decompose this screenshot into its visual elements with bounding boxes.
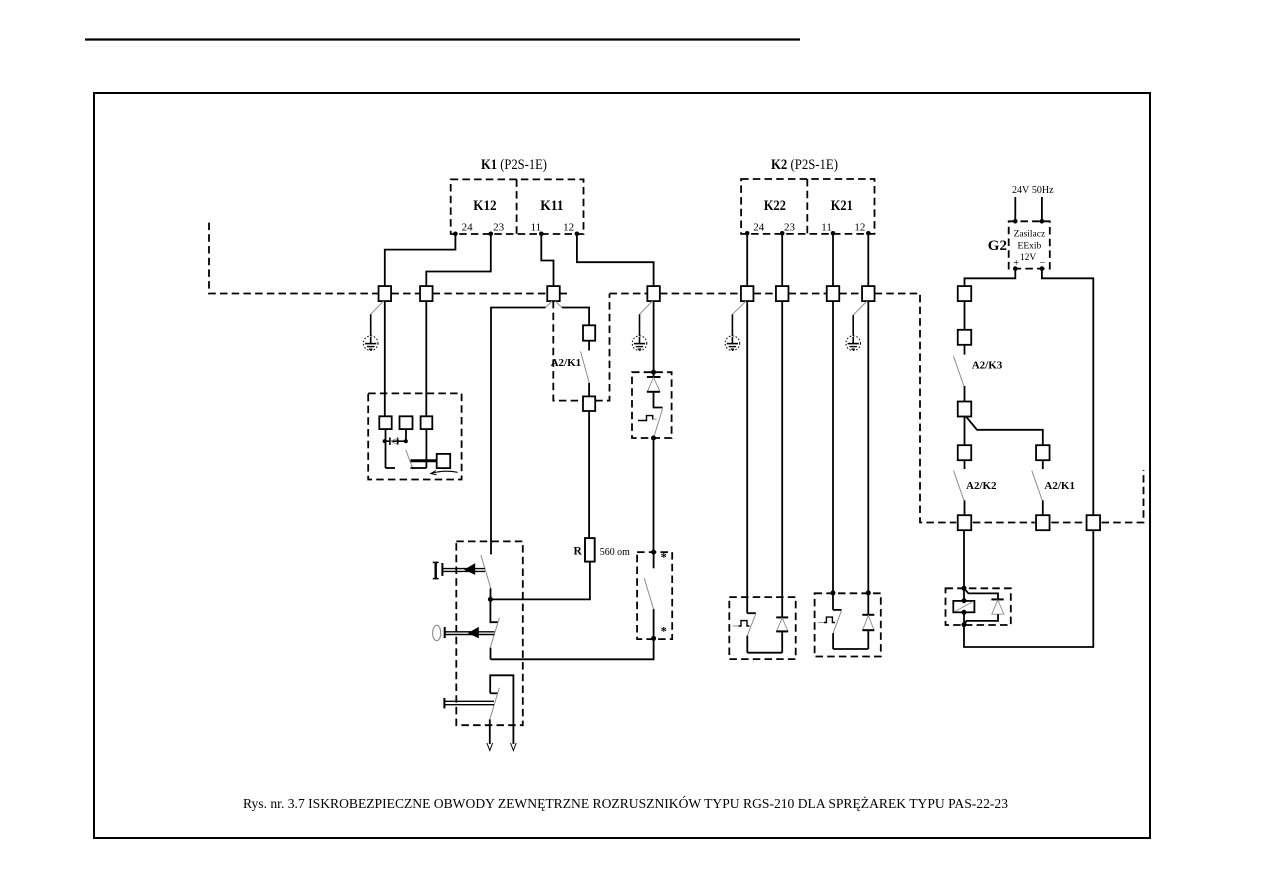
svg-text:24: 24 bbox=[462, 222, 474, 234]
wire G2 minus to RB3 bbox=[1042, 269, 1093, 516]
diode D1 bar line with junctions bbox=[385, 440, 406, 442]
svg-text:12V: 12V bbox=[1020, 253, 1037, 263]
svg-text:23: 23 bbox=[493, 222, 505, 234]
station terminal square T3 bbox=[421, 416, 433, 429]
wire mains L to G2 bbox=[1014, 197, 1016, 221]
dashed barrier bus S5-S6 bbox=[754, 293, 777, 295]
contact A2/K1 right arm bbox=[1032, 471, 1042, 501]
start plunger bbox=[441, 563, 443, 576]
svg-text:11: 11 bbox=[821, 222, 832, 234]
svg-text:24V: 24V bbox=[1012, 185, 1030, 196]
contact A2/K2 arm bbox=[954, 471, 964, 501]
contact A2/K1 dashed enclosure bbox=[553, 301, 583, 401]
dashed barrier bus corner to S4 bbox=[610, 293, 648, 295]
svg-text:24: 24 bbox=[753, 222, 765, 234]
wire contact to RB1 bbox=[964, 500, 966, 515]
svg-text:EExib: EExib bbox=[1018, 241, 1042, 251]
wire R1 to R2 bbox=[964, 301, 966, 330]
limit switch fixed stub bbox=[833, 609, 842, 611]
wire K2 pin 11 to connector S7 bbox=[832, 233, 834, 286]
wire relay return to RB3 bbox=[964, 530, 1093, 647]
K2 pin 12 terminal dot bbox=[866, 231, 871, 236]
dashed barrier bus S3 stub bbox=[560, 293, 569, 295]
limit switch notch bbox=[733, 625, 739, 627]
K21 output dashed box bbox=[815, 593, 881, 656]
svg-text:*: * bbox=[661, 551, 667, 565]
diode D3 triangle bbox=[777, 618, 788, 631]
junction dot bottom bbox=[651, 436, 656, 441]
K2 pin 23 terminal dot bbox=[780, 231, 785, 236]
wire resistor to start/stop node bbox=[490, 562, 590, 600]
wire S1 down to station terminal bbox=[384, 301, 386, 416]
wire K1 pin 11 to connector S3 bbox=[541, 234, 553, 286]
svg-text:K11: K11 bbox=[540, 198, 563, 214]
branch wire R3 to R5 bbox=[966, 417, 1043, 446]
K1 pin 23 terminal dot bbox=[489, 232, 494, 237]
connector S6 bbox=[776, 286, 789, 301]
svg-text:23: 23 bbox=[784, 222, 796, 234]
wire T3 down bbox=[425, 429, 427, 468]
aux arm wire down bbox=[489, 719, 491, 744]
wire stop arm down bbox=[490, 648, 492, 660]
junction dot top bbox=[651, 370, 656, 375]
K1 pin 11 terminal dot bbox=[539, 232, 544, 237]
stop actuator arrow bbox=[468, 627, 479, 639]
interlock dashed box bbox=[637, 552, 672, 639]
dashed barrier bus S4-S5 bbox=[660, 293, 741, 295]
svg-text:R: R bbox=[574, 546, 583, 558]
wire G2 plus to R1 bbox=[965, 269, 1016, 287]
svg-text:K22: K22 bbox=[764, 198, 786, 214]
station terminal square T1 bbox=[379, 416, 391, 429]
contact A2/K1 upper terminal square bbox=[583, 325, 595, 340]
aux contact arm bbox=[490, 688, 500, 720]
wire S2 down to station terminal bbox=[425, 301, 427, 416]
svg-text:A2/K1: A2/K1 bbox=[1044, 480, 1075, 492]
stop branch wire with fixed contact bbox=[490, 599, 497, 622]
K2 block divider bbox=[806, 179, 808, 234]
wire R5 to contact A2/K1 bbox=[1042, 460, 1044, 469]
stop plunger bbox=[444, 627, 446, 638]
junction dot K21 left bbox=[831, 590, 836, 595]
contact A2/K3 arm bbox=[954, 356, 964, 386]
stop contact arm bbox=[490, 618, 499, 648]
relay A2 dashed box bbox=[946, 588, 1011, 625]
dashed barrier bus RB1-RB2 bbox=[973, 522, 1035, 524]
contact A2/K1 lower terminal square bbox=[583, 396, 595, 411]
wire arm down bbox=[746, 636, 748, 653]
connector S3 bbox=[547, 286, 560, 301]
station terminal square T4 bbox=[437, 454, 451, 468]
limit switch arm bbox=[747, 614, 756, 636]
diode D3 leg bbox=[781, 631, 783, 652]
wire K2 pin 24 to connector S5 bbox=[746, 233, 748, 286]
dashed barrier boundary left branch bbox=[209, 223, 379, 294]
wire R3 to R4 bbox=[964, 417, 966, 446]
wire contact to RB2 bbox=[1042, 500, 1044, 515]
svg-text:11: 11 bbox=[531, 222, 542, 234]
bottom link wire bbox=[833, 648, 868, 650]
limit switch notch bbox=[818, 622, 824, 624]
dashed barrier bus S2-S3 bbox=[433, 293, 548, 295]
ground symbol under S4 bbox=[632, 336, 647, 351]
wire RB1 down to relay A2 bbox=[963, 530, 965, 601]
diode-reed dashed box bbox=[632, 372, 672, 438]
station terminal square T2 bbox=[400, 416, 413, 429]
diode D4 cathode bar bbox=[862, 614, 874, 616]
ground symbol under S5 bbox=[725, 336, 740, 351]
start button I symbol bbox=[433, 561, 439, 563]
ground symbol under S8 bbox=[846, 336, 861, 351]
wire to resistor R bbox=[588, 411, 590, 538]
connector S1 bbox=[379, 286, 392, 301]
reed switch arm bbox=[654, 409, 663, 438]
diode D4 leg bbox=[867, 630, 869, 649]
K22 output dashed box bbox=[729, 597, 795, 659]
ground symbol under S1 bbox=[363, 336, 378, 351]
diode D4 triangle bbox=[863, 615, 874, 630]
wire K1 pin 23 to connector S2 bbox=[426, 234, 491, 286]
K1 block divider bbox=[516, 179, 518, 234]
diode D5 cathode bar bbox=[991, 598, 1003, 600]
ground lead from S4 bbox=[640, 301, 653, 314]
bottom link wire bbox=[747, 652, 782, 654]
svg-text:K21: K21 bbox=[831, 198, 853, 214]
station bottom left stub bbox=[386, 467, 396, 469]
station actuator bar bbox=[411, 459, 437, 462]
diode D5 bottom link bbox=[964, 614, 998, 625]
junction dot K21 right bbox=[866, 590, 871, 595]
svg-text:G2: G2 bbox=[988, 238, 1007, 254]
connector R4 bbox=[958, 445, 972, 460]
relay block K1 (P2S-1E) dashed outline bbox=[451, 179, 584, 234]
auxiliary changeover contact top link bbox=[490, 675, 513, 744]
limit switch fixed stub bbox=[747, 612, 756, 614]
connector S2 bbox=[420, 286, 433, 301]
wire T2 down to diode node bbox=[405, 429, 407, 441]
station contact arm bbox=[406, 450, 413, 470]
diode D3 base bar bbox=[776, 630, 788, 632]
K1 pin 12 terminal dot bbox=[575, 232, 580, 237]
ground lead from S8 bbox=[853, 301, 867, 315]
pushbutton dashed box bbox=[456, 541, 523, 725]
K2 pin 11 terminal dot bbox=[831, 231, 836, 236]
wire K1 pin 24 to connector S1 bbox=[385, 234, 456, 286]
connector RB3 bbox=[1087, 515, 1101, 530]
wire mains N to G2 bbox=[1041, 197, 1043, 221]
connector RB2 bbox=[1036, 515, 1050, 530]
diode D5 top link bbox=[964, 588, 998, 599]
G2 input terminal dots bbox=[1013, 219, 1018, 224]
svg-text:*: * bbox=[661, 625, 667, 639]
connector S7 bbox=[827, 286, 840, 301]
svg-text:Rys. nr. 3.7 ISKROBEZPIECZNE: Rys. nr. 3.7 ISKROBEZPIECZNE OBWODY ZEWN… bbox=[243, 795, 1008, 812]
svg-text:12: 12 bbox=[563, 222, 574, 234]
wire contact to R3 bbox=[964, 386, 966, 402]
svg-text:A2/K3: A2/K3 bbox=[972, 360, 1003, 372]
wire coil to bottom node bbox=[963, 612, 965, 624]
ground lead from S5 bbox=[732, 301, 746, 314]
connector RB1 bbox=[958, 515, 972, 530]
dashed barrier bus RB2-RB3 bbox=[1051, 522, 1085, 524]
svg-text:A2/K1: A2/K1 bbox=[551, 357, 582, 369]
wire K2 pin 23 to connector S6 bbox=[781, 233, 783, 286]
svg-text:K2 (P2S-1E): K2 (P2S-1E) bbox=[771, 157, 838, 173]
connector S5 bbox=[741, 286, 754, 301]
connector R1 bbox=[958, 286, 972, 301]
connector R3 bbox=[958, 402, 972, 417]
contact A2/K1 arm bbox=[581, 352, 590, 384]
wire start arm to node bbox=[490, 588, 492, 599]
station bottom right stub bbox=[411, 467, 427, 469]
dashed barrier bus S6-S7 bbox=[789, 293, 827, 295]
resistor R bbox=[585, 538, 595, 562]
K2 pin 24 terminal dot bbox=[745, 231, 750, 236]
dashed barrier bus right end with up stub bbox=[1102, 470, 1144, 523]
field station dashed box bbox=[368, 393, 461, 479]
junction dot interlock top bbox=[651, 550, 656, 555]
wire diode to switch bbox=[654, 392, 663, 408]
diode D2 base bar bbox=[647, 391, 660, 393]
page border frame bbox=[94, 93, 1150, 838]
wire S7 down to K21 box bbox=[832, 301, 834, 610]
wire R2 to contact A2/K3 bbox=[964, 345, 966, 355]
wire K1 pin 12 to connector S4 bbox=[577, 234, 654, 286]
ground lead from S1 bbox=[371, 301, 384, 336]
dashed barrier bus to right drop bbox=[875, 294, 957, 523]
G2 output terminal dots bbox=[1013, 266, 1018, 271]
diode D5 triangle bbox=[992, 600, 1004, 614]
svg-text:12: 12 bbox=[854, 222, 865, 234]
connector R5 bbox=[1036, 445, 1050, 460]
top rule line bbox=[85, 38, 800, 40]
svg-text:K12: K12 bbox=[473, 198, 496, 214]
connector S8 bbox=[862, 286, 875, 301]
wire interlock lower bbox=[653, 609, 655, 638]
dashed barrier bus S7-S8 bbox=[839, 293, 862, 295]
arrow down right bbox=[511, 743, 517, 751]
wire S4 down bbox=[653, 301, 655, 377]
svg-text:A2/K2: A2/K2 bbox=[966, 480, 997, 492]
wire to contact gap bbox=[588, 341, 590, 351]
connector S4 bbox=[647, 286, 660, 301]
svg-text:560 om: 560 om bbox=[600, 546, 630, 558]
start contact arm bbox=[481, 555, 491, 588]
aux plunger bbox=[443, 698, 445, 709]
start actuator arrow bbox=[464, 563, 475, 575]
wire into interlock contact bbox=[653, 552, 655, 568]
wire arm down bbox=[832, 633, 834, 649]
wire S3 left to pushbutton branch bbox=[491, 308, 546, 555]
relay block K2 (P2S-1E) dashed outline bbox=[741, 179, 874, 234]
wire interlock to stop contact bbox=[491, 638, 654, 659]
wire to interlock box bbox=[653, 438, 655, 552]
svg-text:K1 (P2S-1E): K1 (P2S-1E) bbox=[481, 157, 547, 173]
wire K2 pin 12 to connector S8 bbox=[867, 233, 869, 286]
wire S6 down to diode D3 bbox=[781, 301, 783, 617]
relay A2 coil bbox=[953, 601, 974, 612]
wire arm to lower terminal bbox=[588, 383, 590, 396]
diode D3 cathode bar bbox=[776, 616, 788, 618]
connector R2 bbox=[958, 330, 972, 345]
wire T1 down bbox=[385, 429, 387, 468]
diode D2 triangle bbox=[647, 378, 660, 392]
aux contact bottom stub bbox=[490, 692, 497, 694]
diode D2 cathode bar bbox=[647, 376, 661, 378]
svg-text:Zasilacz: Zasilacz bbox=[1014, 230, 1046, 240]
junction dot interlock bottom bbox=[651, 636, 656, 641]
arrow down left bbox=[487, 743, 493, 751]
interlock contact arm bbox=[644, 578, 653, 609]
wire S5 down to K22 box bbox=[746, 301, 748, 613]
power supply G2 dashed box bbox=[1009, 221, 1050, 268]
limit switch arm bbox=[833, 610, 842, 633]
junction node dot bbox=[488, 597, 493, 602]
diode D4 base bar bbox=[862, 629, 874, 631]
dashed barrier bus S1-S2 bbox=[391, 293, 420, 295]
node fanout under S3 bbox=[546, 301, 553, 307]
junction dots on relay branch bbox=[962, 586, 967, 591]
stop button O symbol bbox=[433, 625, 441, 640]
reed latch notch bbox=[638, 416, 653, 421]
svg-text:50Hz: 50Hz bbox=[1032, 185, 1054, 196]
station motion arc bbox=[431, 471, 458, 473]
K1 pin 24 terminal dot bbox=[453, 232, 458, 237]
wire S3 right to contact A2/K1 bbox=[562, 308, 589, 326]
wire S8 down to diode D4 bbox=[867, 301, 869, 615]
wire R4 to contact A2/K2 bbox=[964, 460, 966, 469]
